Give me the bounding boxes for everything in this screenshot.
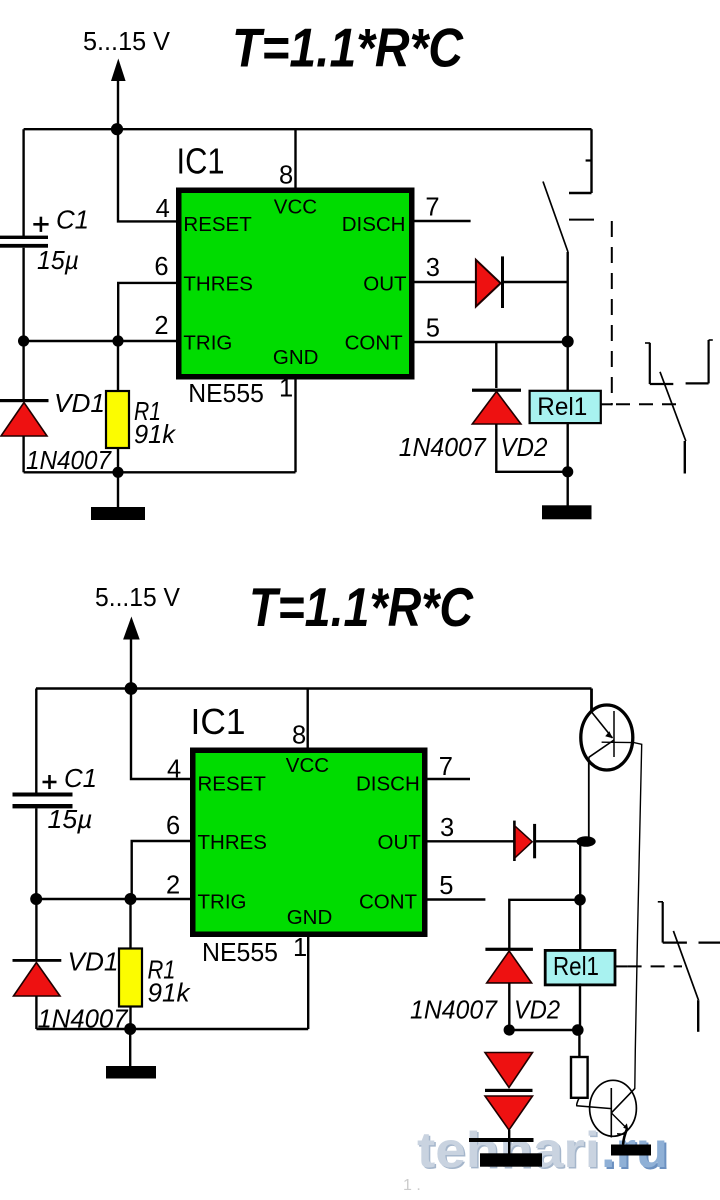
wire relay vertical top (bottom circuit): [579, 843, 581, 950]
svg-text:RESET: RESET: [183, 213, 252, 236]
svg-text:DISCH: DISCH: [342, 213, 406, 236]
svg-text:NE555: NE555: [202, 937, 278, 967]
node TRIG-R1 junction: [112, 335, 123, 346]
svg-text:GND: GND: [287, 906, 333, 929]
node relay bottom junction: [572, 1024, 584, 1036]
wire switch stem: [567, 252, 569, 342]
svg-text:VCC: VCC: [274, 196, 317, 219]
wire LED chain: [508, 1130, 510, 1154]
node TRIG-left junction: [18, 335, 29, 346]
svg-text:4: 4: [156, 195, 170, 223]
supply arrow (bottom): [123, 617, 140, 690]
wire left rail to VD1 (bottom): [35, 899, 37, 959]
wire R1 top (bottom): [129, 899, 131, 948]
svg-text:T=1.1*R*C: T=1.1*R*C: [249, 576, 474, 638]
svg-text:6: 6: [166, 812, 180, 840]
relay coil Rel1 (bottom circuit): [545, 950, 615, 985]
pin 7 wire DISCH stub: [413, 220, 471, 222]
svg-text:7: 7: [439, 753, 453, 781]
wire TRIG horizontal: [24, 340, 177, 342]
ground (Q2 emitter): [611, 1145, 651, 1156]
svg-text:TRIG: TRIG: [198, 891, 247, 914]
svg-text:CONT: CONT: [345, 332, 404, 355]
svg-text:T=1.1*R*C: T=1.1*R*C: [232, 17, 464, 79]
diode D2 output (bottom circuit, hand drawn): [514, 821, 534, 861]
LED D3 (bottom circuit): [485, 1053, 533, 1093]
pin 5 wire CONT: [413, 341, 568, 343]
wire VD1 to bottom rail (bottom): [35, 996, 37, 1029]
node TRIG-left junction (bottom): [30, 893, 42, 905]
wire GND pin1 vertical: [294, 378, 296, 472]
wire TRIG horizontal (bottom): [36, 898, 190, 900]
node V+ junction (bottom): [125, 682, 138, 695]
svg-text:C1: C1: [56, 205, 89, 235]
pin 4 wire RESET: [118, 129, 177, 221]
svg-text:VD2: VD2: [500, 432, 548, 462]
svg-text:5...15 V: 5...15 V: [95, 584, 180, 612]
op-amp IC1 body (NE555, bottom circuit): [193, 750, 425, 934]
svg-text:3: 3: [440, 814, 454, 842]
wire CONT net corner: [509, 900, 580, 949]
node bottom junction: [112, 467, 123, 478]
pin 5 wire CONT stub (bottom): [426, 898, 485, 900]
wire V+ drop to contact: [590, 129, 592, 193]
wire VD2 bottom to LED node: [508, 983, 510, 1030]
resistor R2 (bottom circuit): [571, 1057, 588, 1098]
label + C1: [33, 205, 89, 235]
dashed linkage vertical: [611, 221, 613, 405]
wire diode to junction (bottom): [536, 840, 578, 842]
relay contact terminals (top right): [645, 340, 713, 384]
svg-text:2: 2: [154, 312, 168, 340]
wire V+ drop to Q1: [590, 689, 593, 713]
pin 6 wire THRES (bottom): [132, 841, 191, 899]
wire relay bottom (bottom circuit): [579, 983, 581, 1030]
svg-text:5: 5: [426, 314, 440, 342]
supply arrow (top): [111, 59, 126, 130]
svg-text:VD1: VD1: [68, 947, 119, 977]
op-amp IC1 body (NE555, top circuit): [179, 190, 412, 377]
svg-text:8: 8: [292, 722, 306, 750]
svg-text:2: 2: [166, 872, 180, 900]
ground (top circuit relay): [542, 505, 592, 519]
pin 8 wire VCC: [294, 129, 296, 189]
diode VD2 (top circuit): [472, 389, 521, 424]
svg-text:1: 1: [293, 934, 307, 962]
wire left rail mid (bottom): [35, 808, 37, 899]
relay linkage stub (bottom): [615, 965, 628, 967]
pin 3 wire OUT: [413, 281, 477, 283]
svg-text:DISCH: DISCH: [356, 773, 420, 796]
svg-text:8: 8: [279, 162, 293, 190]
wire VD2 bottom: [496, 424, 567, 472]
node V+ junction: [111, 123, 123, 135]
dashed NC contact: [569, 219, 594, 221]
wire LED node to relay node: [509, 1029, 578, 1031]
svg-text:RESET: RESET: [198, 773, 267, 796]
svg-text:5: 5: [439, 872, 453, 900]
svg-text:15µ: 15µ: [37, 245, 79, 275]
wire GND pin1 vertical (bottom): [307, 936, 309, 1029]
switch lever (top): [543, 182, 568, 253]
wire relay bottom: [567, 423, 569, 472]
svg-text:VD2: VD2: [514, 995, 560, 1025]
wire diode to switch stem: [504, 281, 568, 283]
wire R1 bottom (bottom): [129, 1007, 131, 1030]
wire relay ground stub: [567, 472, 569, 506]
resistor R1 (bottom circuit): [119, 949, 142, 1007]
svg-text:1 .: 1 .: [403, 1177, 421, 1194]
wire ground stub (bottom left): [129, 1029, 131, 1067]
dashed linkage to contact: [616, 403, 682, 405]
diode D1 output (top circuit): [476, 256, 503, 308]
svg-text:GND: GND: [273, 346, 319, 369]
svg-text:OUT: OUT: [363, 272, 407, 295]
svg-text:1N4007: 1N4007: [26, 445, 112, 475]
switch fixed contact (top): [569, 192, 592, 194]
relay contact terminals (bottom right): [658, 902, 720, 943]
wire left rail mid: [22, 248, 24, 341]
svg-text:1N4007: 1N4007: [410, 995, 498, 1025]
svg-text:THRES: THRES: [183, 272, 252, 295]
wire R1 top: [117, 341, 119, 390]
diode VD2 (bottom circuit): [485, 948, 533, 983]
wire Q1 base long line to Q2: [602, 742, 642, 1113]
svg-text:3: 3: [426, 254, 440, 282]
relay contact lever (bottom right): [673, 931, 698, 1000]
svg-text:6: 6: [154, 253, 168, 281]
ground (top circuit left): [91, 507, 145, 520]
wire R1 bottom: [117, 448, 119, 472]
svg-text:1: 1: [279, 375, 293, 403]
svg-text:Rel1: Rel1: [537, 393, 587, 421]
node bottom junction (bottom): [124, 1023, 136, 1035]
svg-text:91k: 91k: [134, 419, 177, 449]
diode VD1 (top circuit): [0, 399, 49, 436]
wire Q2 emitter stroke: [623, 1129, 627, 1143]
svg-text:4: 4: [167, 756, 181, 784]
node VD2 bottom junction: [562, 466, 573, 477]
watermark tehnari.ru: [417, 1122, 670, 1180]
wire relay node to R2: [578, 1030, 580, 1058]
wire relay top: [567, 342, 569, 392]
wire contact stem (top right): [684, 441, 686, 474]
node LED junction: [504, 1024, 515, 1035]
wire contact stem (bottom right): [697, 1000, 699, 1032]
transistor Q2 (bottom, hand drawn): [590, 1080, 637, 1137]
svg-text:VD1: VD1: [54, 388, 105, 418]
svg-text:VCC: VCC: [286, 754, 329, 777]
node OUT junction blob: [576, 836, 595, 847]
pin 4 wire RESET (bottom): [131, 689, 191, 780]
svg-text:C1: C1: [64, 763, 97, 793]
wire bottom rail (top circuit): [24, 471, 296, 473]
svg-text:OUT: OUT: [378, 831, 422, 854]
transistor Q1 (top, hand drawn): [581, 705, 633, 770]
wire left rail upper: [22, 129, 24, 236]
wire Q1 emitter down: [588, 757, 590, 837]
wire left rail upper (bottom): [35, 689, 37, 793]
wire R2 to Q2 base: [577, 1098, 612, 1109]
wire VD2 top: [495, 342, 497, 388]
svg-text:CONT: CONT: [359, 891, 418, 914]
diode VD1 (bottom circuit): [13, 959, 62, 996]
svg-text:NE555: NE555: [188, 378, 263, 408]
svg-text:IC1: IC1: [177, 140, 225, 181]
pin 7 wire DISCH stub (bottom): [426, 778, 470, 780]
pin 8 wire VCC (bottom): [307, 689, 309, 752]
wire ground stub: [117, 472, 119, 507]
svg-text:TRIG: TRIG: [183, 332, 232, 355]
wire left rail to VD1: [22, 341, 24, 400]
ground (LED chain): [480, 1153, 542, 1166]
rail tick artifact: [586, 159, 592, 161]
node CONT junction (bottom): [574, 894, 586, 906]
LED D4 (bottom circuit): [469, 1096, 534, 1142]
resistor R1 (top circuit): [106, 391, 129, 448]
svg-text:Rel1: Rel1: [553, 951, 599, 981]
relay coil Rel1 (top circuit): [530, 391, 601, 423]
node TRIG-R1 junction (bottom): [125, 893, 137, 905]
svg-text:5...15 V: 5...15 V: [83, 28, 170, 56]
svg-text:15µ: 15µ: [48, 804, 93, 834]
svg-text:7: 7: [425, 194, 439, 222]
svg-text:IC1: IC1: [191, 701, 246, 742]
svg-text:1N4007: 1N4007: [399, 432, 487, 462]
wire bottom rail (bottom circuit): [36, 1028, 308, 1030]
ground (bottom circuit left): [106, 1066, 156, 1079]
relay linkage stub: [601, 403, 612, 405]
wire V+ rail (bottom circuit): [36, 687, 592, 689]
dashed linkage to contact (bottom): [628, 965, 682, 967]
relay contact lever (top right): [660, 372, 686, 441]
wire VD1 to bottom rail: [22, 436, 24, 472]
capacitor C1 (top circuit): [0, 236, 48, 248]
pin 6 wire THRES: [118, 283, 177, 341]
capacitor C1 (bottom circuit): [13, 793, 73, 809]
svg-text:91k: 91k: [148, 978, 192, 1008]
label + C1 (bottom): [43, 763, 98, 793]
svg-text:THRES: THRES: [198, 831, 267, 854]
wire V+ rail (top circuit): [24, 128, 592, 130]
pin 3 wire OUT (bottom): [426, 840, 514, 842]
node CONT junction: [562, 336, 574, 348]
